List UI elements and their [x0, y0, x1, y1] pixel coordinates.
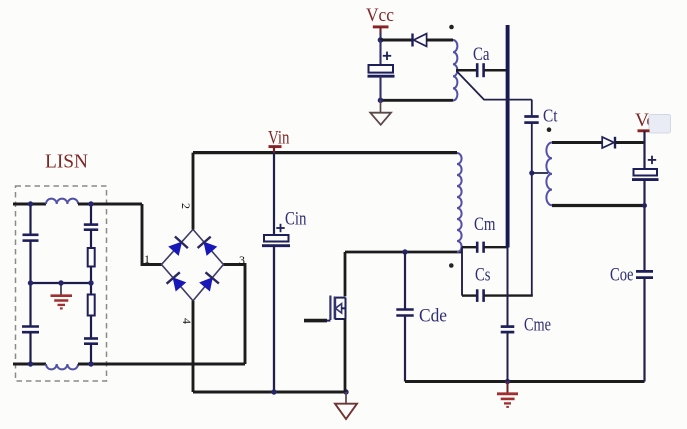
- svg-text:4: 4: [180, 318, 194, 324]
- svg-text:Vin: Vin: [268, 128, 290, 149]
- svg-text:Ct: Ct: [543, 106, 558, 126]
- svg-text:Ca: Ca: [473, 44, 490, 65]
- svg-text:Vcc: Vcc: [366, 5, 394, 26]
- svg-text:LISN: LISN: [45, 151, 88, 173]
- svg-text:Coe: Coe: [610, 265, 634, 286]
- svg-text:Cm: Cm: [474, 214, 496, 235]
- svg-text:Cde: Cde: [419, 306, 447, 327]
- svg-text:1: 1: [144, 252, 150, 266]
- svg-text:3: 3: [239, 253, 245, 267]
- svg-text:Cin: Cin: [285, 209, 307, 230]
- svg-text:2: 2: [179, 203, 193, 209]
- svg-text:Cme: Cme: [524, 315, 551, 336]
- svg-text:Cs: Cs: [475, 265, 491, 286]
